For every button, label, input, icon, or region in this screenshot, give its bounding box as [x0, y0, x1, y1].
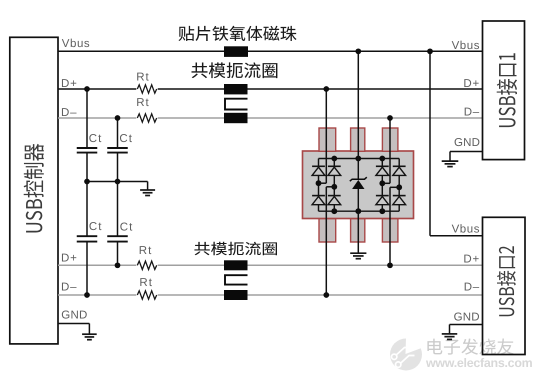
svg-text:D+: D+ — [61, 78, 78, 90]
svg-text:GND: GND — [454, 137, 480, 149]
resistor Rt (top D+) — [137, 85, 156, 93]
wire U2 center pin to ground — [357, 211, 359, 253]
svg-text:Rt: Rt — [139, 277, 153, 289]
ground rail (top capacitors) — [87, 181, 148, 183]
common-mode choke L1 winding (D-) — [224, 113, 248, 123]
U2 steering diode column E upper diode — [398, 159, 400, 167]
label USB接口1 (rotated) — [497, 53, 517, 127]
U2 column E mid junction — [396, 184, 402, 190]
capacitor Ct4 — [107, 235, 128, 237]
label USB控制器 (rotated) — [24, 144, 44, 233]
svg-text:D–: D– — [464, 281, 480, 293]
label USB接口2 (rotated) — [497, 246, 516, 316]
label 贴片铁氧体磁珠 (chip ferrite bead) — [179, 26, 297, 41]
U2 pin 5 (bottom middle) — [351, 219, 365, 242]
U2 pin 3 (top right) — [382, 128, 398, 151]
junction D-/U2 wire — [387, 115, 393, 121]
jog to column B mid — [326, 186, 334, 188]
wire GND (U1 to ground) — [58, 323, 89, 325]
ground symbol (J1 GND) — [442, 160, 459, 162]
wire D- bottom (U1 to J2) — [58, 294, 136, 296]
svg-text:D+: D+ — [61, 253, 78, 265]
jog to column A mid — [320, 182, 327, 184]
USB controller U1 (left box) — [10, 37, 58, 344]
junction Ct4/D+ bottom — [115, 262, 121, 268]
resistor Rt (bottom D+) — [137, 261, 156, 269]
junction rail/Ct1 — [84, 179, 90, 185]
U2 steering diode column A upper diode — [318, 159, 320, 167]
U2 steering diode column B lower diode — [328, 195, 341, 197]
svg-text:Ct: Ct — [119, 133, 132, 145]
common-mode choke L1 winding (D+) — [224, 84, 248, 94]
svg-text:GND: GND — [454, 311, 480, 323]
wire D- top (U1 to J1) — [58, 117, 483, 119]
U2 steering diode column A lower diode — [312, 195, 325, 197]
junction bottom rail col D — [379, 208, 385, 214]
wire GND (J1 to ground) — [450, 151, 483, 153]
resistor Rt (bottom D-) — [137, 291, 156, 299]
wire U2 to D- bottom (left) — [325, 187, 327, 295]
junction rail/Ct2 — [115, 179, 121, 185]
svg-text:Rt: Rt — [136, 97, 150, 109]
U2 steering diode column D lower diode — [376, 195, 389, 197]
wire Ct1 to ground rail — [86, 153, 88, 182]
U2 pin 1 (top left) — [319, 128, 336, 151]
wire from D+ down to capacitor Ct1 — [86, 89, 88, 148]
USB connector J2 (USB接口2 box) — [483, 217, 526, 354]
ground symbol (J2 GND) — [442, 333, 458, 335]
U2 steering diode column D upper diode — [381, 159, 383, 167]
wire D+ bottom (U1 to J2) — [58, 264, 136, 266]
junction U2 wire/D+ bottom — [387, 262, 393, 268]
wire rail down to capacitor Ct3 — [86, 182, 88, 237]
wire from D- down to capacitor Ct2 — [117, 118, 119, 148]
wire Ct4 to D+ bottom — [117, 242, 119, 266]
ferrite bead FB1 on Vbus — [224, 46, 248, 57]
junction bottom rail col B — [331, 208, 337, 214]
junction top rail col D — [379, 156, 385, 162]
ground symbol (U1 GND) — [82, 333, 97, 335]
U2 center zener diode — [357, 159, 359, 180]
U2 internal bottom rail — [319, 210, 400, 212]
U2 pin 6 (bottom left) — [319, 219, 336, 242]
U2 column B mid junction — [331, 184, 337, 190]
junction D+/Ct1 — [84, 86, 90, 92]
wire D- top to U2 (right) — [389, 118, 391, 183]
capacitor Ct1 — [77, 147, 98, 149]
svg-text:Vbus: Vbus — [452, 40, 480, 52]
choke L2 core symbol — [225, 275, 248, 284]
U2 steering diode column E lower diode — [393, 195, 406, 197]
wire Vbus to U2 center pin — [357, 51, 359, 158]
svg-text:D+: D+ — [463, 78, 480, 90]
U2 pin 4 (bottom right) — [382, 219, 398, 242]
svg-text:Ct: Ct — [120, 222, 134, 234]
wire Ct2 to ground rail — [117, 153, 119, 182]
junction top rail col B — [331, 156, 337, 162]
svg-text:D+: D+ — [463, 253, 480, 265]
choke L1 core symbol — [225, 99, 248, 110]
label 共模扼流圈 (common-mode choke, top) — [192, 62, 278, 78]
U2 steering diode column B upper diode — [333, 159, 335, 167]
svg-text:Ct: Ct — [89, 133, 103, 145]
common-mode choke L2 winding (D-) — [224, 290, 248, 300]
svg-text:Rt: Rt — [136, 72, 150, 84]
jog to column E mid — [390, 186, 399, 188]
capacitor Ct2 — [107, 147, 128, 149]
svg-text:Vbus: Vbus — [62, 38, 90, 50]
watermark logo (elecfans) — [390, 338, 422, 371]
ground symbol (U2 center) — [350, 252, 366, 254]
wire rail down to capacitor Ct4 — [117, 182, 119, 237]
junction Vbus/J2 branch — [427, 48, 433, 54]
svg-text:GND: GND — [61, 310, 87, 322]
junction bottom rail center — [355, 208, 361, 214]
wire Vbus branch down to J2 — [429, 51, 431, 236]
junction Ct3/D- bottom — [84, 292, 90, 298]
wire U2 to D+ bottom (right) — [389, 187, 391, 265]
common-mode choke L2 winding (D+) — [224, 260, 248, 270]
wire GND (J2 to ground) — [450, 324, 483, 326]
svg-text:D–: D– — [61, 282, 77, 294]
svg-text:Ct: Ct — [89, 221, 103, 233]
resistor Rt (top D-) — [137, 114, 156, 122]
TVS diode array U2 package body — [303, 151, 414, 219]
watermark text 电子发烧友 — [429, 340, 515, 356]
junction U2 wire/D- bottom — [323, 292, 329, 298]
label 共模扼流圈 (common-mode choke, bottom) — [194, 242, 277, 256]
U2 column A mid junction — [316, 180, 322, 186]
junction D-/Ct2 — [115, 115, 121, 121]
U2 pin 2 (top middle) — [351, 128, 365, 151]
wire D+ top (U1 to J1) — [58, 88, 483, 90]
capacitor Ct3 — [77, 235, 98, 237]
junction D+/U2 wire — [323, 86, 329, 92]
ground symbol (capacitor rail) — [147, 182, 149, 191]
wire Vbus (U1 to J1) — [58, 50, 483, 52]
USB connector J1 (USB接口1 box) — [483, 21, 525, 160]
U2 internal top rail — [319, 158, 400, 160]
U2 column D mid junction — [379, 180, 385, 186]
svg-text:Vbus: Vbus — [452, 224, 480, 236]
svg-text:D–: D– — [61, 107, 77, 119]
junction top rail center — [355, 156, 361, 162]
svg-text:Rt: Rt — [139, 245, 153, 257]
wire Ct3 to D- bottom — [86, 242, 88, 295]
svg-text:www.elecfans.com: www.elecfans.com — [425, 356, 533, 370]
junction Vbus/U2 center wire — [355, 48, 361, 54]
wire D+ top to U2 (left) — [325, 89, 327, 183]
svg-text:D–: D– — [464, 106, 480, 118]
jog to column D mid — [382, 182, 390, 184]
